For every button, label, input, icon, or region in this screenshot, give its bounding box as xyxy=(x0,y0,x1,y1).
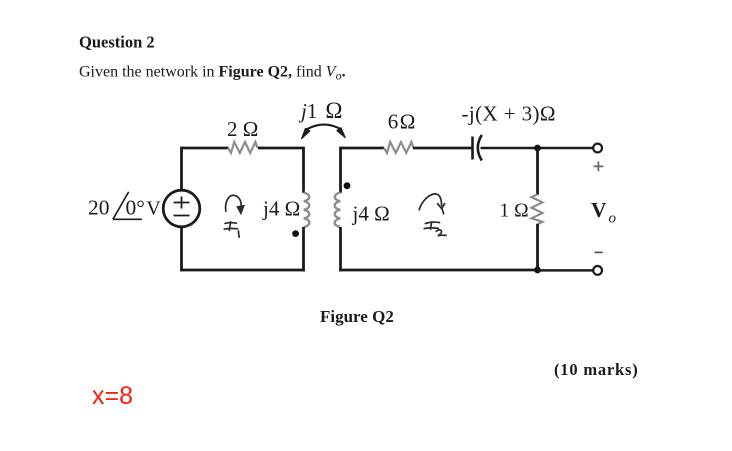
resistor R 6Ω zigzag xyxy=(384,142,414,153)
wire: right loop left lower segment xyxy=(339,227,342,271)
wire: right loop top segment a xyxy=(341,147,385,150)
svg-text:V: V xyxy=(146,198,161,220)
wire: right loop left upper segment xyxy=(339,147,342,193)
svg-text:Figure Q2: Figure Q2 xyxy=(320,307,394,326)
svg-text:j1Ω: j1Ω xyxy=(298,98,342,123)
voltage source VS1 20∠0°V xyxy=(163,190,200,227)
svg-text:0°: 0° xyxy=(126,196,145,220)
current I1 annotation (handwritten arrow) xyxy=(226,195,245,214)
polarity dot L1 xyxy=(292,230,299,237)
resistor R 2Ω zigzag xyxy=(228,142,258,153)
polarity dot L2 xyxy=(344,182,351,189)
svg-text:6Ω: 6Ω xyxy=(388,110,416,134)
svg-text:Given the network in Figure Q2: Given the network in Figure Q2, find Vo. xyxy=(79,64,346,83)
wire: 1Ω branch lower xyxy=(536,224,539,272)
terminal - (bottom open circle) xyxy=(593,266,602,275)
node dot bottom xyxy=(534,267,541,274)
wire: 1Ω branch upper xyxy=(536,148,539,195)
inductor L2 j4Ω (right coil) xyxy=(335,193,341,227)
node dot top xyxy=(534,145,541,152)
current I2 label (handwritten) xyxy=(424,222,446,236)
svg-text:(10 marks): (10 marks) xyxy=(554,360,639,379)
resistor R 1Ω vertical zigzag xyxy=(532,194,543,224)
wire: left loop top-right segment xyxy=(258,147,304,150)
current I2 annotation (handwritten arrow) xyxy=(419,194,444,214)
wire: left loop left lower segment xyxy=(180,227,183,272)
svg-text:1 Ω: 1 Ω xyxy=(500,200,529,221)
current I1 label (handwritten) xyxy=(224,222,239,237)
wire: left loop right upper segment xyxy=(302,147,305,193)
svg-text:o: o xyxy=(609,211,617,227)
capacitor C -j(X+3)Ω xyxy=(471,137,474,160)
plus sign under terminal xyxy=(594,162,604,172)
wire: right loop top segment b xyxy=(413,147,473,150)
wire: right loop bottom segment xyxy=(339,269,537,272)
wire: top from capacitor to terminal xyxy=(481,147,594,150)
svg-text:j4 Ω: j4 Ω xyxy=(262,197,300,221)
svg-text:2 Ω: 2 Ω xyxy=(227,117,258,141)
wire: left loop top-left segment xyxy=(182,147,229,150)
svg-text:V: V xyxy=(591,198,607,222)
svg-text:Question 2: Question 2 xyxy=(79,33,155,52)
wire: bottom to terminal xyxy=(538,269,594,272)
inductor L1 j4Ω (left coil) xyxy=(304,193,310,227)
svg-text:x=8: x=8 xyxy=(92,382,133,410)
svg-text:20: 20 xyxy=(88,196,110,220)
wire: left loop right lower segment xyxy=(302,227,305,271)
terminal + (top open circle) xyxy=(593,144,602,153)
wire: left loop bottom segment xyxy=(180,269,305,272)
svg-text:-j(X + 3)Ω: -j(X + 3)Ω xyxy=(462,102,556,126)
wire: left loop left upper segment xyxy=(180,147,183,191)
minus sign above bottom terminal xyxy=(595,251,603,253)
mutual coupling arc j1Ω xyxy=(305,125,341,131)
svg-text:j4 Ω: j4 Ω xyxy=(352,201,390,225)
